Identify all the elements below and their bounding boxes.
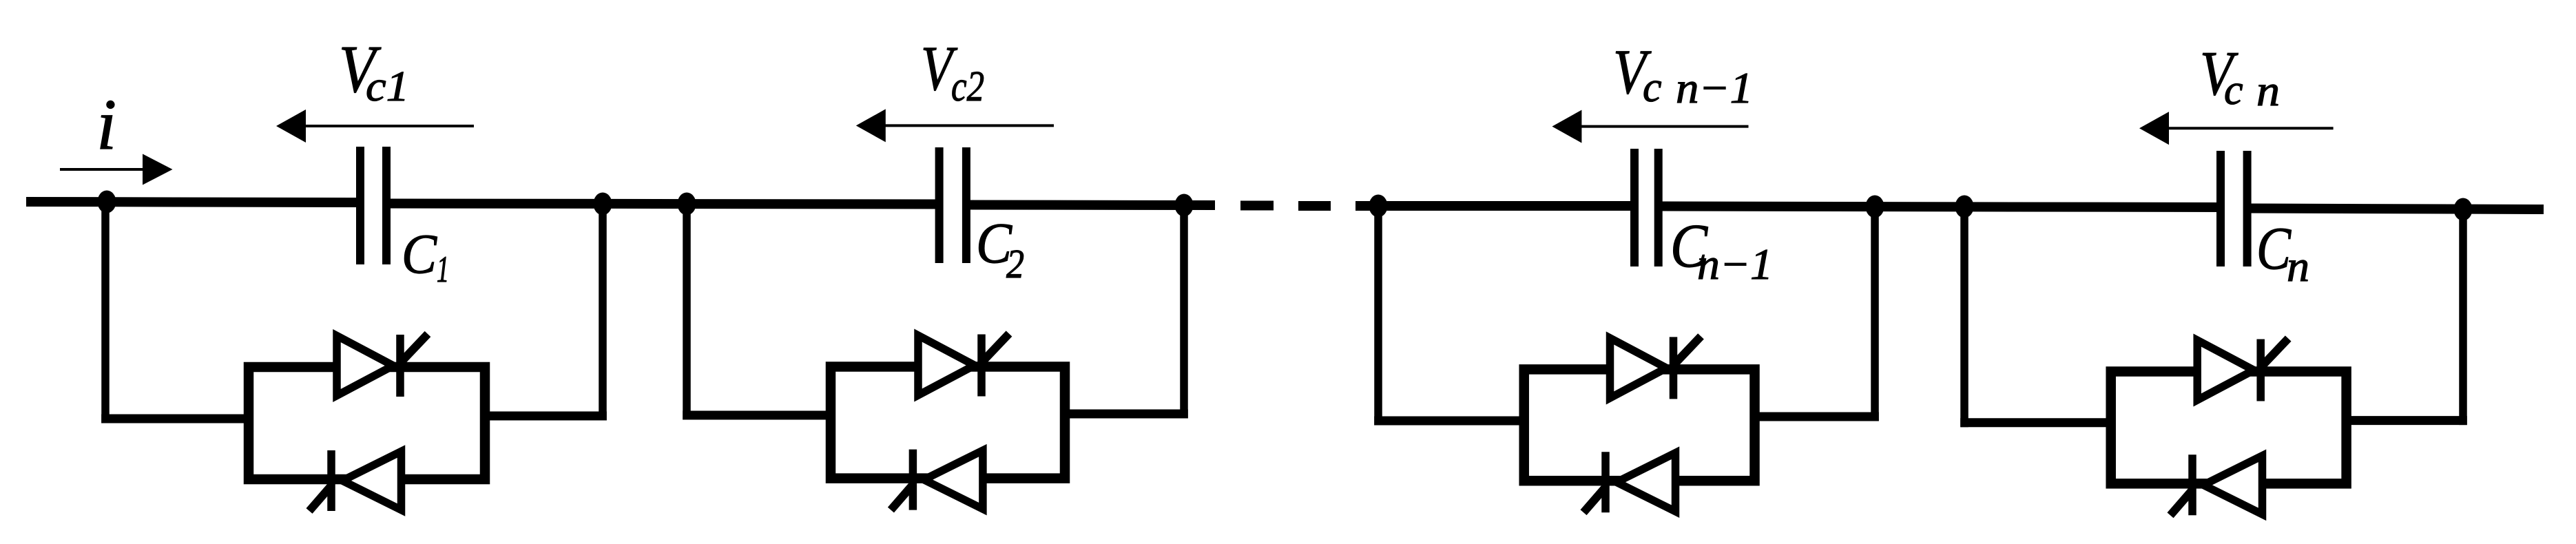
wire: right vertical leg of Cn-1 cell — [1871, 207, 1879, 421]
svg-text:n−1: n−1 — [1697, 240, 1773, 289]
node: left junction of C1 cell — [98, 191, 116, 213]
node: right junction of Cn cell — [2454, 198, 2473, 221]
wire: right horizontal stub out of thyristor box of C2 cell — [1065, 410, 1188, 419]
wire: dash segment 2 of dashed continuation — [1298, 201, 1331, 211]
svg-text:i: i — [96, 84, 116, 165]
thyristor Tn-1b (reverse, on bottom side of loop) — [1583, 452, 1676, 512]
svg-text:1: 1 — [437, 249, 449, 290]
thyristor Tna (forward, on top side of loop) — [2197, 339, 2288, 401]
svg-text:c: c — [1643, 64, 1662, 111]
svg-text:n−1: n−1 — [1676, 63, 1753, 112]
wire: left vertical leg of C2 cell — [683, 204, 691, 420]
wire: right horizontal stub out of thyristor box of C1 cell — [485, 412, 607, 421]
wire: rectangular bypass loop around thyristors of Cn-1 cell — [1524, 369, 1755, 481]
capacitor Cn-1 — [1630, 149, 1639, 266]
thyristor Tnb (reverse, on bottom side of loop) — [2170, 454, 2263, 515]
wire: rectangular bypass loop around thyristors of C2 cell — [831, 367, 1065, 479]
wire: right vertical leg of Cn cell — [2459, 209, 2467, 425]
arrow for voltage Vcn (points left) — [2160, 127, 2334, 129]
wire: Cn right plate to right end — [2244, 209, 2544, 210]
node: right junction of C2 cell — [1175, 194, 1194, 217]
wire: right vertical leg of C2 cell — [1180, 205, 1188, 419]
wire: left vertical leg of Cn-1 cell — [1374, 206, 1382, 426]
svg-text:c2: c2 — [951, 63, 984, 110]
arrow for current i — [60, 168, 146, 171]
wire: C(n-1) right plate to Cn left plate — [1655, 207, 2224, 208]
node: left junction of Cn-1 cell — [1369, 195, 1388, 218]
svg-text:c: c — [2224, 67, 2243, 114]
wire: right horizontal stub out of thyristor box of Cn cell — [2347, 416, 2467, 425]
wire: left horizontal stub into thyristor box of Cn-1 cell — [1374, 417, 1524, 426]
wire: right horizontal stub out of thyristor box of Cn-1 cell — [1755, 412, 1879, 421]
wire: C1 right plate to C2 left plate — [383, 204, 943, 205]
node: left junction of C2 cell — [678, 193, 696, 216]
svg-text:C: C — [402, 222, 437, 285]
wire: C2 right plate to dashed break — [963, 200, 1215, 211]
capacitor C2 — [935, 147, 944, 263]
svg-text:n: n — [2287, 242, 2309, 291]
node: right junction of C1 cell — [594, 193, 612, 216]
wire: left horizontal stub into thyristor box of C2 cell — [683, 411, 831, 420]
thyristor T2b (reverse, on bottom side of loop) — [891, 450, 983, 510]
wire: rectangular bypass loop around thyristors of Cn cell — [2111, 372, 2347, 484]
node: right junction of Cn-1 cell — [1866, 196, 1884, 218]
svg-text:c1: c1 — [366, 63, 409, 110]
thyristor Tn-1a (forward, on top side of loop) — [1610, 336, 1701, 399]
wire: dash segment 1 of dashed continuation — [1240, 201, 1274, 211]
wire: rectangular bypass loop around thyristors of C1 cell — [249, 367, 485, 479]
wire: dashed break to C(n-1) left plate — [1355, 201, 1638, 211]
wire: left vertical leg of Cn cell — [1960, 207, 1969, 427]
wire: main line left end to C1 left plate — [26, 202, 364, 202]
arrow for voltage Vc1 (points left) — [297, 125, 474, 127]
wire: right vertical leg of C1 cell — [599, 204, 607, 421]
svg-text:2: 2 — [1006, 241, 1024, 286]
wire: left horizontal stub into thyristor box of C1 cell — [101, 415, 249, 423]
arrow for voltage Vcn-1 (points left) — [1572, 125, 1748, 128]
wire: left horizontal stub into thyristor box of Cn cell — [1960, 418, 2111, 427]
capacitor C1 — [356, 147, 364, 264]
thyristor T1b (reverse, on bottom side of loop) — [309, 450, 402, 511]
thyristor T2a (forward, on top side of loop) — [918, 334, 1009, 397]
svg-text:n: n — [2256, 66, 2280, 115]
thyristor T1a (forward, on top side of loop) — [337, 334, 428, 397]
arrow for voltage Vc2 (points left) — [877, 124, 1054, 127]
node: left junction of Cn cell — [1955, 196, 1974, 218]
wire: left vertical leg of C1 cell — [101, 202, 110, 423]
capacitor Cn — [2216, 151, 2225, 266]
